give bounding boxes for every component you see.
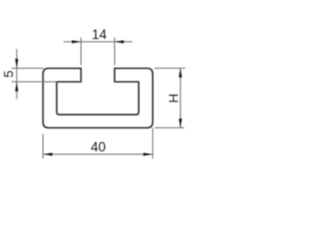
svg-text:5: 5 [1,70,16,77]
dimension H: extension line bottom [155,127,185,129]
svg-text:H: H [166,94,181,103]
dimension 14: extension line left [80,38,82,66]
dimension H: dimension line [179,68,181,128]
C-profile outline [43,68,153,128]
dimension H: extension line top [155,67,186,69]
dimension 14: arrow right (points left) [115,40,124,43]
dimension 5: dimension line [16,49,18,99]
dimension 14: arrow left (points right) [72,40,81,43]
dimension 5: extension line bottom [12,81,58,83]
svg-text:14: 14 [92,27,108,42]
dimension 14: dimension line [64,41,133,43]
dimension 40: extension line left [42,134,44,159]
dimension 40: arrow left (points left) [43,153,52,156]
dimension 40: arrow right (points right) [143,153,152,156]
dimension 5: arrow bottom (points up) [15,82,18,91]
dimension 40: extension line right [152,128,154,158]
dimension H: arrow bottom (points down) [179,119,182,128]
dimension 14: extension line right [114,38,116,66]
dimension 5: arrow top (points down) [15,59,18,68]
dimension 40: dimension line [43,153,153,155]
svg-text:40: 40 [91,140,106,155]
dimension H: arrow top (points up) [179,68,182,77]
dimension 5: extension line top [12,67,44,69]
